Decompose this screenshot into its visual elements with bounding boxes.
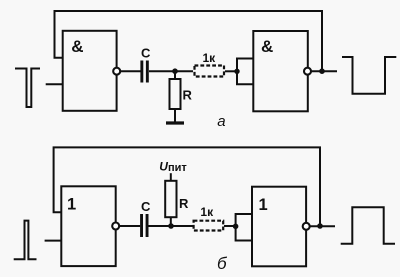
svg-text:C: C — [141, 45, 151, 60]
svg-text:R: R — [179, 196, 189, 211]
svg-text:C: C — [141, 199, 151, 214]
svg-text:&: & — [261, 37, 273, 56]
svg-text:б: б — [217, 254, 228, 273]
svg-text:&: & — [71, 37, 83, 56]
svg-text:1: 1 — [67, 196, 76, 214]
svg-text:R: R — [183, 88, 193, 103]
svg-text:1к: 1к — [203, 51, 217, 65]
svg-text:1к: 1к — [200, 205, 214, 219]
svg-text:1: 1 — [259, 196, 268, 214]
svg-text:U: U — [159, 159, 168, 173]
svg-text:а: а — [217, 113, 225, 130]
svg-text:пит: пит — [168, 162, 187, 174]
